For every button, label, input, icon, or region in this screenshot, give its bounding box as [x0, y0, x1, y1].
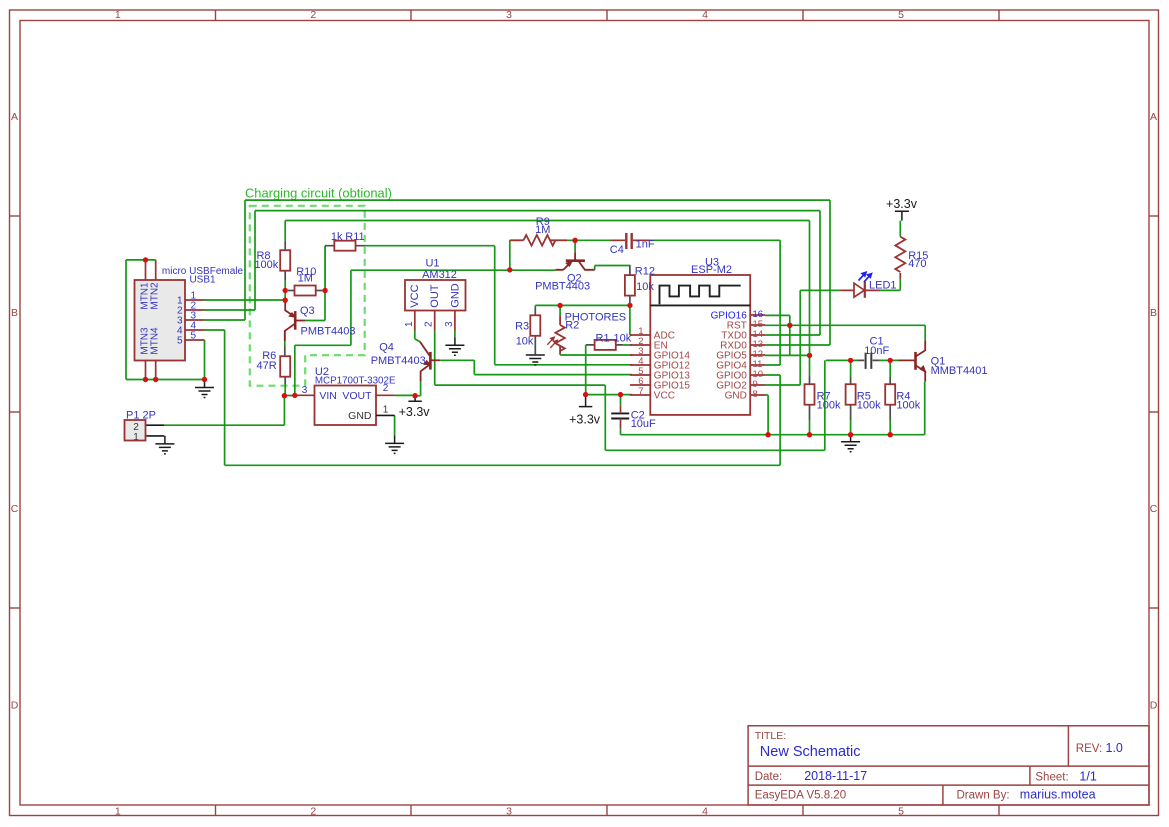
- svg-text:GND: GND: [725, 390, 747, 401]
- svg-text:R11: R11: [345, 231, 364, 243]
- svg-text:1.0: 1.0: [1106, 741, 1123, 755]
- svg-text:USB1: USB1: [189, 274, 216, 285]
- svg-text:Drawn By:: Drawn By:: [957, 790, 1010, 802]
- svg-text:Date:: Date:: [755, 771, 783, 783]
- svg-text:R1: R1: [596, 332, 610, 344]
- svg-text:C4: C4: [610, 244, 624, 256]
- svg-text:+3.3v: +3.3v: [886, 197, 918, 211]
- svg-text:Q4: Q4: [379, 342, 394, 354]
- svg-text:1: 1: [383, 404, 389, 415]
- svg-text:+3.3v: +3.3v: [399, 405, 431, 419]
- svg-text:100k: 100k: [817, 399, 841, 411]
- svg-text:7: 7: [638, 386, 643, 397]
- svg-text:1/1: 1/1: [1079, 769, 1096, 783]
- svg-text:47R: 47R: [257, 360, 277, 372]
- svg-text:2: 2: [383, 383, 389, 394]
- svg-text:U1: U1: [425, 257, 439, 269]
- svg-text:A: A: [11, 111, 18, 123]
- svg-text:MMBT4401: MMBT4401: [931, 365, 988, 377]
- svg-text:P1 2P: P1 2P: [126, 410, 156, 422]
- svg-text:10nF: 10nF: [864, 345, 889, 357]
- svg-text:VIN: VIN: [319, 390, 337, 402]
- svg-text:Sheet:: Sheet:: [1035, 771, 1068, 783]
- svg-text:B: B: [1150, 307, 1157, 319]
- svg-text:10k: 10k: [636, 281, 654, 293]
- svg-text:GND: GND: [348, 410, 372, 422]
- svg-text:VCC: VCC: [409, 284, 421, 307]
- svg-text:1nF: 1nF: [636, 239, 655, 251]
- svg-text:R3: R3: [515, 320, 529, 332]
- svg-text:C: C: [11, 503, 19, 515]
- svg-text:1k: 1k: [331, 231, 343, 243]
- svg-text:10k: 10k: [516, 335, 534, 347]
- svg-text:2018-11-17: 2018-11-17: [804, 769, 867, 783]
- svg-text:R12: R12: [635, 265, 655, 277]
- svg-text:TITLE:: TITLE:: [755, 730, 787, 742]
- svg-text:3: 3: [506, 806, 512, 818]
- svg-text:Q3: Q3: [300, 305, 315, 317]
- svg-text:Charging circuit (obtional): Charging circuit (obtional): [245, 186, 392, 201]
- svg-text:VCC: VCC: [654, 390, 675, 401]
- svg-text:2: 2: [310, 806, 316, 818]
- svg-text:PMBT4403: PMBT4403: [301, 326, 356, 338]
- svg-text:100k: 100k: [896, 399, 920, 411]
- svg-text:5: 5: [898, 9, 904, 21]
- svg-text:GND: GND: [449, 283, 461, 308]
- svg-text:EasyEDA V5.8.20: EasyEDA V5.8.20: [755, 790, 846, 802]
- svg-text:REV:: REV:: [1076, 743, 1102, 755]
- svg-text:1: 1: [115, 806, 121, 818]
- svg-text:10uF: 10uF: [631, 418, 656, 430]
- svg-text:PMBT4403: PMBT4403: [535, 281, 590, 293]
- svg-text:+3.3v: +3.3v: [569, 413, 601, 427]
- svg-text:D: D: [11, 699, 19, 711]
- svg-text:VOUT: VOUT: [342, 390, 372, 402]
- svg-text:1M: 1M: [535, 224, 550, 236]
- svg-text:1: 1: [133, 432, 139, 443]
- svg-text:R2: R2: [565, 319, 579, 331]
- svg-text:4: 4: [702, 9, 708, 21]
- svg-text:AM312: AM312: [422, 269, 457, 281]
- svg-text:3: 3: [506, 9, 512, 21]
- svg-text:A: A: [1150, 111, 1157, 123]
- svg-text:2: 2: [424, 321, 435, 327]
- svg-text:marius.motea: marius.motea: [1020, 788, 1096, 802]
- svg-text:1M: 1M: [298, 272, 313, 284]
- svg-text:3: 3: [302, 385, 308, 396]
- svg-text:C: C: [1150, 503, 1158, 515]
- svg-text:100k: 100k: [254, 259, 278, 271]
- svg-text:PMBT4403: PMBT4403: [371, 355, 426, 367]
- svg-text:ESP-M2: ESP-M2: [691, 264, 732, 276]
- svg-text:470: 470: [908, 258, 926, 270]
- svg-text:2: 2: [310, 9, 316, 21]
- svg-text:LED1: LED1: [869, 279, 897, 291]
- svg-text:3: 3: [444, 321, 455, 327]
- svg-text:4: 4: [702, 806, 708, 818]
- svg-text:OUT: OUT: [429, 284, 441, 308]
- svg-text:100k: 100k: [857, 399, 881, 411]
- svg-text:New Schematic: New Schematic: [760, 744, 861, 760]
- svg-text:1: 1: [404, 321, 415, 327]
- svg-text:8: 8: [753, 389, 758, 400]
- svg-text:1: 1: [115, 9, 121, 21]
- svg-text:MTN4: MTN4: [150, 327, 161, 355]
- svg-text:B: B: [11, 307, 18, 319]
- svg-text:5: 5: [177, 336, 183, 347]
- svg-text:5: 5: [191, 331, 197, 342]
- svg-text:5: 5: [898, 806, 904, 818]
- svg-text:MTN2: MTN2: [150, 282, 161, 310]
- svg-text:D: D: [1150, 699, 1158, 711]
- svg-text:10k: 10k: [614, 332, 632, 344]
